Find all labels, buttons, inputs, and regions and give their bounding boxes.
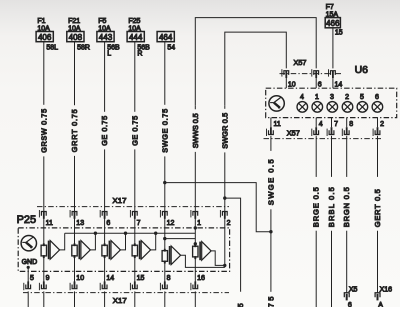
svg-text:BRGE 0.5: BRGE 0.5	[312, 187, 321, 227]
svg-text:X57: X57	[294, 58, 307, 67]
X57 pin 6	[312, 69, 322, 88]
wire F7 to X57.14	[332, 28, 334, 69]
X57 pin 2	[373, 118, 384, 136]
resistor/indicator stage 2	[72, 241, 91, 260]
svg-text:F21: F21	[68, 18, 80, 25]
svg-text:2: 2	[227, 220, 231, 227]
connector X5 pin 6	[344, 286, 357, 309]
svg-text:8: 8	[349, 121, 353, 128]
connector X57 (top strip)	[280, 58, 342, 74]
wire X17 pin 1 into P25	[194, 217, 196, 246]
wire stage 1 output	[60, 233, 65, 250]
wire SWGR top run to X57.10	[225, 32, 286, 105]
wire stage 5 output	[181, 255, 225, 267]
svg-text:14: 14	[335, 81, 343, 88]
svg-text:5: 5	[360, 94, 364, 101]
svg-text:SWGE 0.75: SWGE 0.75	[160, 109, 169, 153]
U6 lamp 4	[297, 94, 308, 112]
resistor/indicator stage 4	[132, 241, 151, 260]
svg-text:SWGE 0.5: SWGE 0.5	[266, 159, 275, 205]
wire BRBL 0.5	[327, 136, 336, 307]
resistor/indicator stage 6	[193, 242, 212, 261]
P25 ground GND	[22, 259, 38, 285]
X17 pin 11	[39, 210, 53, 227]
wire branch SWGR to terminal 5	[223, 196, 245, 307]
svg-text:444: 444	[129, 32, 143, 42]
svg-text:58R: 58R	[77, 45, 90, 52]
svg-text:6: 6	[106, 220, 110, 227]
X17 bottom pin 8	[160, 275, 170, 307]
svg-text:1: 1	[197, 220, 201, 227]
X17 pin 2	[220, 210, 230, 227]
svg-text:X17: X17	[113, 196, 127, 205]
X17 bottom pin 16	[191, 275, 205, 307]
wire X17 pin 6 into P25	[104, 217, 106, 245]
X17 bottom pin 14	[100, 275, 114, 307]
P25 box (dash-dot border)	[18, 228, 229, 272]
svg-text:10: 10	[76, 275, 84, 282]
wire stage 1 to X17 bottom	[43, 256, 45, 285]
svg-text:9: 9	[46, 275, 50, 282]
wire GRRT 0.75 (feed 2)	[70, 42, 79, 212]
wire collector bus	[65, 226, 197, 233]
X17 bottom pin 15	[130, 275, 144, 307]
wire BRGE 0.5	[312, 136, 321, 307]
X17 pin 1	[191, 210, 201, 227]
X17 pin 12	[160, 210, 174, 227]
U6 lamp 2	[342, 94, 353, 112]
wire SWGE 0.75 (feed 5)	[160, 42, 169, 212]
U6 gauge symbol (clock)	[269, 96, 284, 111]
svg-text:14: 14	[106, 275, 114, 282]
wire stage 4 output	[151, 232, 158, 250]
fuse 464 (box 464)	[157, 32, 175, 52]
svg-text:BRGN 0.5: BRGN 0.5	[342, 187, 351, 227]
svg-text:4: 4	[319, 121, 323, 128]
svg-text:16: 16	[197, 275, 205, 282]
X17 pin 6	[100, 210, 110, 227]
svg-text:15: 15	[335, 30, 343, 37]
svg-text:466: 466	[326, 18, 340, 28]
wire GE 0.75 (feed 3)	[100, 42, 109, 212]
svg-text:F5: F5	[98, 18, 106, 25]
fuse F21 (box 408)	[67, 18, 90, 51]
U6 lamp 6	[372, 94, 383, 112]
wire SWWS top run to X57.6	[195, 18, 316, 106]
wire GE 0.75 (feed 4)	[130, 42, 139, 212]
svg-text:2: 2	[345, 94, 349, 101]
svg-text:11: 11	[46, 220, 53, 227]
svg-text:U6: U6	[355, 64, 369, 76]
wire branch SWGE feed junction	[163, 181, 271, 232]
svg-text:F1: F1	[37, 18, 45, 25]
connector X16 pin A	[375, 286, 392, 309]
svg-text:10: 10	[288, 81, 296, 88]
svg-text:5: 5	[30, 275, 34, 282]
X57 pin 11	[267, 118, 281, 136]
U6 lamp 1	[312, 94, 323, 112]
fuse F1 (box 406)	[36, 18, 58, 51]
svg-text:464: 464	[159, 32, 173, 42]
connector X17 (bottom strip)	[23, 293, 229, 305]
wire stage 5 to X17 bottom	[164, 261, 166, 285]
svg-text:408: 408	[69, 32, 83, 42]
svg-text:11: 11	[274, 121, 281, 128]
svg-text:6: 6	[348, 302, 352, 307]
svg-text:7: 7	[334, 121, 338, 128]
svg-text:GND: GND	[22, 259, 38, 266]
X17 bottom pin 5	[24, 275, 34, 307]
U6 lamp 5	[357, 94, 368, 112]
X57 pin 7	[327, 118, 338, 136]
wire X17 pin 12 into P25	[164, 217, 166, 251]
instrument cluster P25 label	[17, 214, 37, 226]
svg-text:443: 443	[99, 32, 113, 42]
wire X17 pin 13 into P25	[74, 217, 76, 245]
P25 gauge symbol (clock)	[21, 236, 36, 251]
resistor/indicator stage 3	[102, 241, 121, 260]
wire stage 3 to X17 bottom	[104, 256, 106, 285]
svg-text:6: 6	[318, 81, 322, 88]
resistor/indicator stage 1	[41, 241, 60, 260]
X17 bottom pin 9	[39, 275, 49, 307]
X17 pin 7	[130, 210, 140, 227]
svg-text:BRBL 0.5: BRBL 0.5	[327, 187, 336, 227]
wire stage 3 output	[120, 232, 127, 250]
connector X17 (top strip)	[37, 196, 229, 207]
op-unit U6 label	[355, 64, 369, 76]
fuse F5 (box 443)	[97, 18, 120, 58]
U6 lamp 3	[327, 94, 338, 112]
svg-text:X16: X16	[380, 286, 393, 293]
svg-text:7: 7	[137, 220, 141, 227]
wire X17 pin 7 into P25	[134, 217, 136, 245]
svg-text:54: 54	[167, 45, 175, 52]
wire stage 4 to X17 bottom	[134, 256, 136, 285]
U6 box (dash-dot border)	[266, 88, 397, 117]
resistor/indicator stage 5	[162, 246, 181, 265]
fuse F25 (box 444)	[127, 18, 150, 58]
svg-text:2: 2	[380, 121, 384, 128]
wire stage 2 output	[90, 232, 97, 250]
svg-text:13: 13	[76, 220, 84, 227]
svg-text:1: 1	[315, 94, 319, 101]
wire GERT 0.5	[373, 136, 382, 293]
svg-text:P25: P25	[17, 214, 37, 226]
X57 pin 4	[312, 118, 323, 136]
svg-text:R: R	[137, 51, 142, 58]
wire stage 6 to X17 bottom	[194, 257, 196, 285]
svg-text:SWWS 0.5: SWWS 0.5	[191, 113, 200, 148]
svg-text:F25: F25	[128, 18, 140, 25]
svg-text:GRSW 0.75: GRSW 0.75	[39, 109, 48, 153]
svg-text:GE 0.75: GE 0.75	[130, 116, 139, 146]
wire feed 12-to-1 link	[163, 237, 197, 246]
svg-text:12: 12	[167, 220, 175, 227]
wire SWGE 0.5 to terminal 75	[266, 136, 275, 308]
fuse F7 (box 466)	[325, 4, 343, 37]
wire SWGR 0.5 (feed 7)	[220, 105, 229, 211]
svg-text:58L: 58L	[46, 45, 58, 52]
wire BRGN 0.5	[342, 136, 351, 293]
wire SWWS 0.5 (feed 6)	[191, 105, 200, 211]
svg-text:406: 406	[38, 32, 52, 42]
wire X17 pin 11 into P25	[43, 217, 45, 245]
X17 pin 13	[70, 210, 84, 227]
svg-text:8: 8	[167, 275, 171, 282]
X57 pin 8	[342, 118, 353, 136]
svg-text:SWGR 0.5: SWGR 0.5	[220, 113, 229, 149]
svg-text:F7: F7	[326, 4, 334, 11]
X57 pin 14	[329, 69, 343, 88]
wire X17 pin 2 inside P25	[224, 217, 226, 267]
wire stage 6 output	[211, 251, 227, 267]
svg-text:X5: X5	[349, 286, 358, 293]
connector X57 (bottom strip)	[264, 129, 383, 139]
svg-text:GERT 0.5: GERT 0.5	[373, 189, 382, 227]
svg-text:X57: X57	[287, 129, 300, 138]
svg-text:3: 3	[330, 94, 334, 101]
wire GRSW 0.75 (feed 1)	[39, 42, 48, 212]
svg-text:A: A	[378, 302, 383, 307]
svg-text:GE 0.75: GE 0.75	[100, 116, 109, 146]
svg-text:X17: X17	[113, 296, 127, 305]
svg-text:15: 15	[137, 275, 145, 282]
svg-text:5: 5	[236, 303, 245, 307]
svg-text:6: 6	[375, 94, 379, 101]
X17 bottom pin 10	[70, 275, 84, 307]
svg-text:L: L	[107, 51, 111, 58]
wire stage 2 to X17 bottom	[74, 256, 76, 285]
svg-text:GRRT 0.75: GRRT 0.75	[70, 109, 79, 152]
X57 pin 10	[282, 69, 296, 88]
svg-text:4: 4	[300, 94, 304, 101]
